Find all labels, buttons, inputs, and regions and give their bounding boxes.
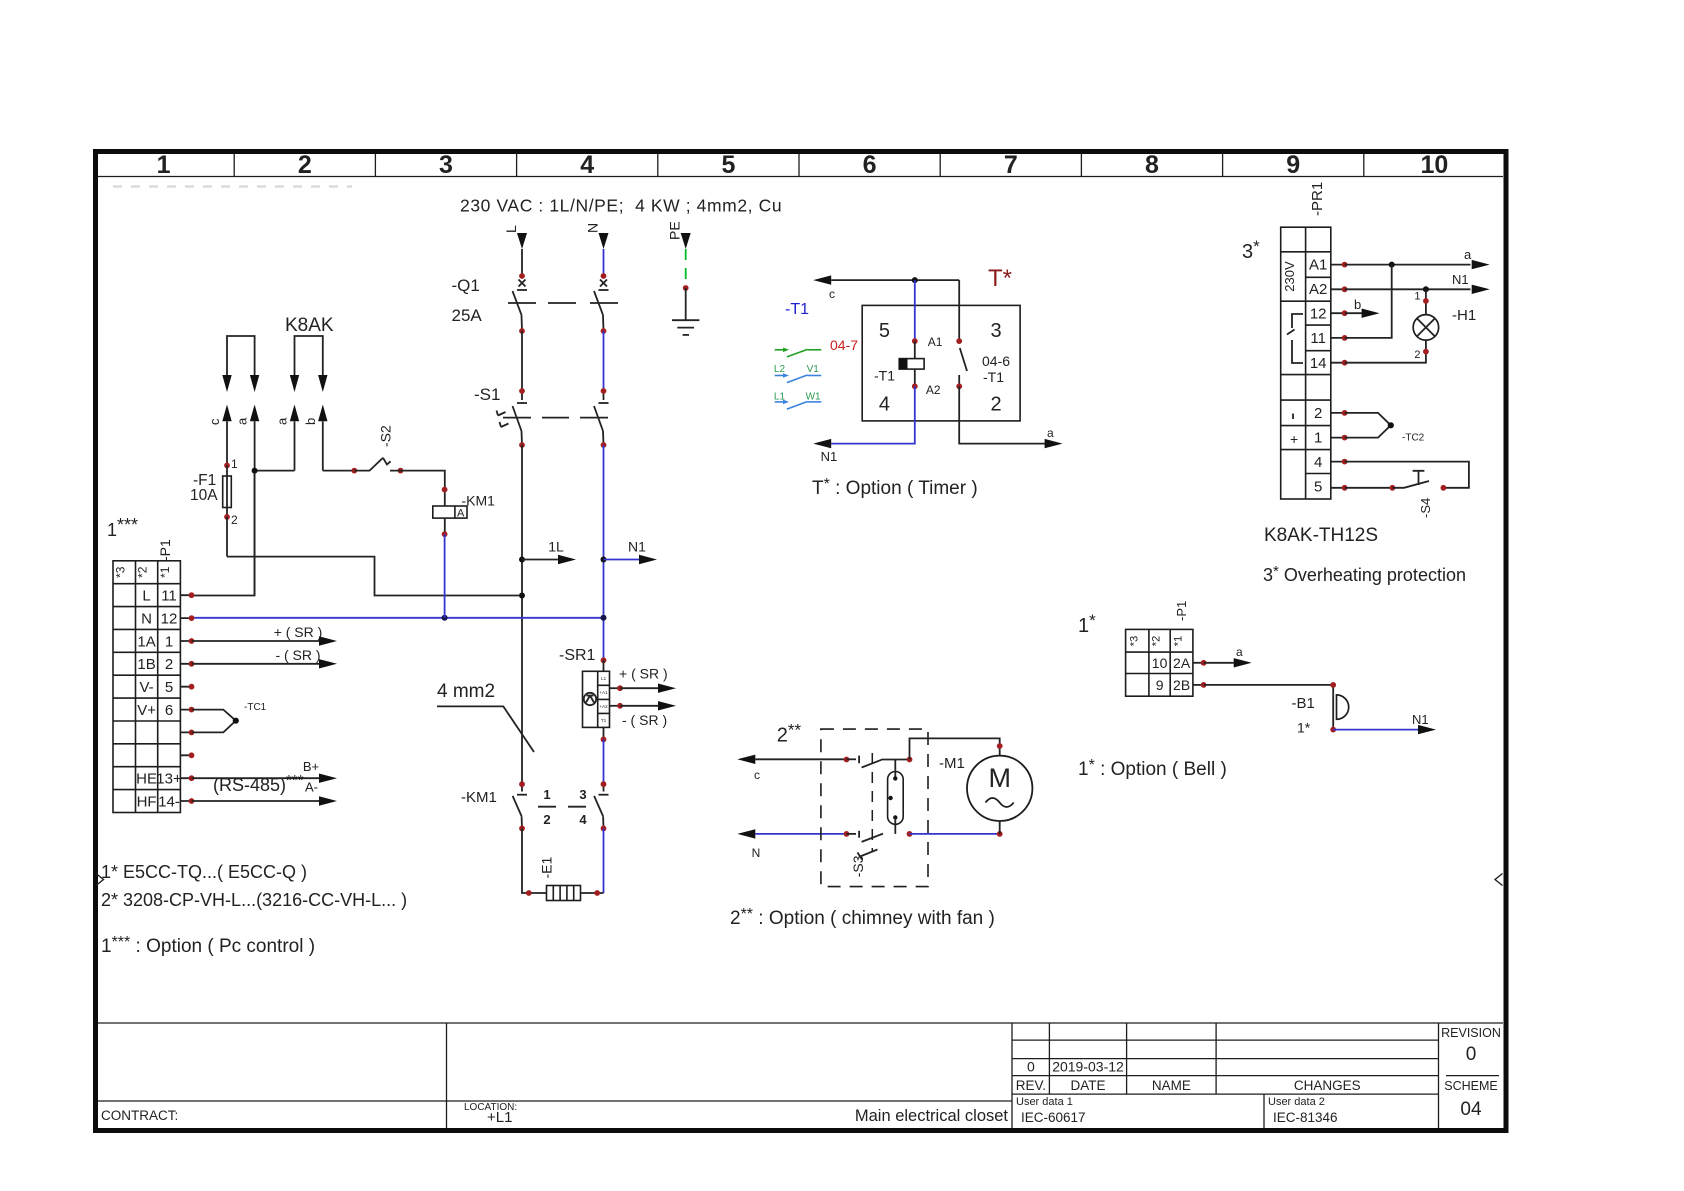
BELL bbox=[1078, 601, 1436, 780]
terminal numbers column bbox=[156, 588, 182, 811]
svg-text:-PR1: -PR1 bbox=[1309, 182, 1326, 216]
heater E1 body bbox=[547, 886, 581, 901]
capsule wire bottom bbox=[894, 818, 896, 834]
svg-text:SCHEME: SCHEME bbox=[1444, 1079, 1497, 1093]
wire 11 to A1 bbox=[1345, 265, 1392, 338]
wire timer A2 to N1 blue bbox=[831, 386, 915, 443]
svg-text:N1: N1 bbox=[1452, 272, 1469, 287]
bell stub 2A bbox=[1193, 662, 1204, 664]
terminal KM1 1 bbox=[519, 781, 525, 787]
junction timer top bbox=[912, 277, 918, 283]
net arrow a pr1 bbox=[1345, 264, 1471, 266]
switch S3 pole bottom bbox=[844, 831, 850, 837]
right center marker bbox=[1495, 874, 1503, 886]
svg-text:2: 2 bbox=[231, 513, 238, 527]
svg-text:NAME: NAME bbox=[1152, 1078, 1191, 1093]
svg-text:-H1: -H1 bbox=[1452, 307, 1476, 324]
svg-text:N: N bbox=[585, 223, 601, 233]
connector plug bracket 2 bbox=[295, 336, 323, 375]
svg-text:2: 2 bbox=[990, 394, 1001, 416]
terminal dot 12 bbox=[1342, 310, 1348, 316]
junction PE bbox=[683, 285, 689, 291]
svg-text:+A1: +A1 bbox=[600, 690, 609, 695]
svg-text:1: 1 bbox=[1314, 430, 1322, 447]
svg-text:1* E5CC-TQ...( E5CC-Q ): 1* E5CC-TQ...( E5CC-Q ) bbox=[101, 862, 307, 882]
svg-text:11: 11 bbox=[161, 588, 177, 605]
svg-text:N1: N1 bbox=[628, 539, 646, 555]
contactor KM1 pole 3-4 bbox=[594, 784, 608, 828]
terminal timer A2 bbox=[912, 383, 918, 389]
node L feed arrow bbox=[517, 233, 527, 249]
svg-text:N1: N1 bbox=[821, 449, 838, 464]
rev header row bbox=[1016, 1078, 1361, 1093]
svg-text:5: 5 bbox=[1314, 479, 1322, 496]
svg-text:1: 1 bbox=[1414, 291, 1420, 303]
lamp H1 body bbox=[1413, 315, 1439, 341]
junction a link bbox=[252, 468, 258, 474]
lamp H1 pin1 dot bbox=[1423, 298, 1429, 304]
wire PE green bbox=[685, 249, 687, 288]
fuse F1 body bbox=[223, 476, 232, 508]
net arrow c fan bbox=[737, 755, 755, 764]
net arrow b pr1 bbox=[1345, 312, 1363, 314]
svg-text:12: 12 bbox=[161, 611, 178, 628]
timer contact blade bbox=[960, 348, 967, 371]
junction motor top bbox=[997, 743, 1003, 749]
junction A2 branch bbox=[1423, 286, 1429, 292]
svg-text:W1: W1 bbox=[806, 392, 821, 403]
thermocouple TC2 wires bbox=[1345, 413, 1391, 438]
breaker Q1 pole L bbox=[513, 280, 528, 332]
svg-text:c: c bbox=[829, 287, 835, 301]
terminal dot 13 bbox=[189, 775, 195, 781]
svg-text:User data 2: User data 2 bbox=[1268, 1096, 1325, 1108]
junction A1 branch bbox=[1389, 262, 1395, 268]
svg-text:2: 2 bbox=[1314, 405, 1322, 422]
svg-text:-B1: -B1 bbox=[1292, 695, 1315, 712]
terminal SR1 L1 top bbox=[601, 657, 607, 663]
socket pin arrow up a2 bbox=[290, 405, 299, 422]
svg-text:5: 5 bbox=[721, 151, 735, 179]
svg-text:9: 9 bbox=[1156, 677, 1164, 693]
svg-text:-Q1: -Q1 bbox=[452, 276, 480, 295]
motor sine mark bbox=[986, 798, 1014, 807]
svg-text:DATE: DATE bbox=[1070, 1078, 1105, 1093]
node PE feed arrow bbox=[681, 233, 691, 249]
switch S1 pole L bbox=[513, 391, 528, 445]
net arrow -SR bbox=[192, 663, 320, 665]
terminal dot 5 bbox=[1342, 485, 1348, 491]
svg-text:-TC2: -TC2 bbox=[1402, 433, 1425, 444]
svg-text:b: b bbox=[1354, 297, 1361, 312]
SR1KM1 bbox=[437, 647, 676, 901]
ground symbol bbox=[672, 288, 699, 335]
svg-text:1: 1 bbox=[157, 151, 171, 179]
bell B1 symbol bbox=[1337, 695, 1349, 719]
svg-text:L2: L2 bbox=[774, 364, 786, 375]
wire L arrow to Q1 bbox=[521, 249, 523, 276]
net arrow a bell bbox=[1204, 662, 1234, 664]
terminal dot 2A bbox=[1201, 660, 1207, 666]
terminal dot 4 bbox=[1342, 459, 1348, 465]
svg-text:2** : Option ( chimney with fa: 2** : Option ( chimney with fan ) bbox=[730, 906, 995, 929]
relay terminal stubs bbox=[1331, 265, 1345, 488]
svg-text:4: 4 bbox=[879, 394, 890, 416]
svg-text:1L: 1L bbox=[548, 539, 564, 555]
header numbers bbox=[157, 151, 1449, 179]
svg-text:+: + bbox=[1290, 431, 1298, 447]
faint reference dashes bbox=[113, 185, 352, 187]
terminal timer 3 bbox=[956, 338, 962, 344]
svg-text:+L1: +L1 bbox=[487, 1109, 512, 1126]
svg-text:4: 4 bbox=[579, 812, 587, 827]
svg-text:CHANGES: CHANGES bbox=[1294, 1078, 1361, 1093]
svg-text:04-6: 04-6 bbox=[982, 353, 1010, 369]
svg-text:5: 5 bbox=[879, 320, 890, 342]
svg-text:-T1: -T1 bbox=[874, 368, 895, 384]
svg-text:N: N bbox=[752, 846, 761, 860]
net arrow N1 pr1 bbox=[1345, 288, 1471, 290]
junction N1 bbox=[601, 557, 607, 563]
wire timer contact top bbox=[958, 280, 960, 341]
left center marker bbox=[96, 874, 104, 886]
svg-text:0: 0 bbox=[1027, 1059, 1035, 1075]
terminal KM1 3 bbox=[601, 781, 607, 787]
header column dividers bbox=[234, 154, 1364, 177]
svg-text:-S4: -S4 bbox=[1418, 498, 1433, 518]
svg-text:8: 8 bbox=[1145, 151, 1159, 179]
wire KM1 A2 to N bbox=[444, 534, 446, 618]
terminal SR1 +A2 bbox=[617, 703, 623, 709]
cross ref switch blue 2 bbox=[775, 402, 822, 410]
svg-text:1: 1 bbox=[543, 787, 550, 802]
wire KM1 2 to heater bbox=[522, 828, 547, 893]
svg-text:CONTRACT:: CONTRACT: bbox=[101, 1108, 178, 1123]
junction S1 L bottom bbox=[519, 442, 525, 448]
wire b to S2 bbox=[323, 470, 355, 472]
contactor KM1 pole 1-2 bbox=[513, 784, 527, 828]
PR1 bbox=[1242, 182, 1490, 585]
fuse F1 terminal 1 bbox=[224, 463, 230, 469]
svg-text:*3: *3 bbox=[1128, 636, 1140, 646]
wire KM1 4 to heater bbox=[603, 828, 605, 893]
switch S2 actuator chevron bbox=[383, 458, 391, 465]
wire a stem down to terminal 11 net bbox=[254, 421, 256, 595]
svg-text:HE: HE bbox=[136, 771, 157, 788]
svg-text:2B: 2B bbox=[1173, 677, 1190, 693]
svg-text:M: M bbox=[988, 763, 1011, 793]
wire Q1 to S1 L bbox=[521, 331, 523, 391]
terminal dot 5 bbox=[189, 684, 195, 690]
svg-text:+A2: +A2 bbox=[600, 704, 609, 709]
socket pin arrow up c bbox=[222, 405, 231, 422]
svg-text:10A: 10A bbox=[190, 487, 218, 504]
net arrow N fan bbox=[737, 829, 755, 838]
thermocouple TC1 wires bbox=[192, 710, 236, 733]
wire P1 terminal 11 to K8AK pin a bbox=[192, 471, 255, 596]
wire S3 to motor top bbox=[910, 738, 1000, 759]
MAIN bbox=[192, 273, 658, 784]
svg-text:0: 0 bbox=[1466, 1044, 1477, 1065]
svg-text:7: 7 bbox=[1004, 151, 1018, 179]
svg-text:V1: V1 bbox=[807, 364, 820, 375]
terminal KM1 A2 bbox=[442, 531, 448, 537]
svg-text:9: 9 bbox=[1286, 151, 1300, 179]
fuse F1 terminal 2 bbox=[224, 514, 230, 520]
svg-text:HF: HF bbox=[137, 793, 157, 810]
svg-text:-M1: -M1 bbox=[939, 755, 965, 772]
wire SR1 top bbox=[603, 660, 605, 671]
svg-text:a: a bbox=[275, 417, 290, 425]
SR1 output stub +A1 bbox=[610, 687, 621, 689]
svg-text:V-: V- bbox=[140, 679, 154, 696]
motor M1 body bbox=[967, 756, 1032, 821]
svg-text:V+: V+ bbox=[137, 702, 156, 719]
svg-text:-S2: -S2 bbox=[378, 425, 394, 447]
svg-text:A1: A1 bbox=[928, 335, 943, 349]
SR1 pin labels bbox=[600, 676, 609, 723]
svg-text:14: 14 bbox=[1310, 355, 1327, 372]
svg-text:*2: *2 bbox=[1151, 636, 1163, 646]
contract row line bbox=[98, 1100, 1012, 1102]
wire A1 to coil bbox=[914, 341, 916, 359]
switch S1 linkage dashes bbox=[503, 417, 608, 419]
wire timer contact bottom bbox=[958, 375, 960, 386]
capsule wire top bbox=[894, 760, 896, 779]
svg-text:*2: *2 bbox=[136, 566, 150, 578]
svg-text:-P1: -P1 bbox=[1174, 601, 1189, 621]
terminal S3 top right bbox=[907, 757, 913, 763]
wire terminal 5 to S4 bbox=[1345, 487, 1393, 489]
junction c wire on L bus bbox=[519, 593, 525, 599]
svg-text:*1: *1 bbox=[1173, 636, 1185, 646]
wire timer coil feed blue bbox=[914, 280, 916, 341]
terminal dot 6 bbox=[189, 707, 195, 713]
socket pin arrow up a1 bbox=[250, 405, 259, 422]
svg-text:A: A bbox=[457, 508, 465, 520]
terminal dot 1 bbox=[189, 638, 195, 644]
timer coil body bbox=[899, 359, 924, 370]
wire fused c from F1 to L bus bbox=[227, 557, 522, 596]
svg-text:230 VAC : 1L/N/PE; 4 KW ; 4mm: 230 VAC : 1L/N/PE; 4 KW ; 4mm2, Cu bbox=[460, 196, 782, 216]
svg-text:1B: 1B bbox=[137, 656, 155, 673]
net arrow a right bbox=[1045, 439, 1063, 448]
svg-text:A2: A2 bbox=[926, 383, 941, 397]
terminal dot 2B bbox=[1201, 682, 1207, 688]
fuse F1 through wire bbox=[226, 465, 228, 517]
terminal dot row8 bbox=[189, 752, 195, 758]
FEED bbox=[460, 196, 782, 335]
svg-text:1: 1 bbox=[231, 457, 238, 471]
terminal stubs bbox=[180, 595, 191, 801]
net arrow -SR out bbox=[620, 705, 658, 707]
connector plug bracket 1 bbox=[227, 336, 255, 375]
svg-text:N1: N1 bbox=[1412, 712, 1429, 727]
net arrow c left bbox=[813, 275, 831, 284]
cross ref switch blue 1 bbox=[775, 375, 822, 383]
bell stub 2B bbox=[1193, 684, 1204, 686]
net arrow N1 bell bbox=[1333, 729, 1418, 731]
switch S4 left dot bbox=[1390, 485, 1396, 491]
relay PR1 body bbox=[1281, 227, 1331, 499]
svg-text:04: 04 bbox=[1460, 1099, 1482, 1120]
net arrow B+ bbox=[192, 777, 320, 779]
svg-text:-S3: -S3 bbox=[850, 855, 866, 877]
capsule dot mid bbox=[888, 796, 892, 800]
divider contract/location bbox=[446, 1023, 448, 1128]
terminal KM1 4 bbox=[601, 826, 607, 832]
svg-text:-E1: -E1 bbox=[539, 857, 555, 879]
terminal S3 bottom right bbox=[907, 831, 913, 837]
wire N arrow to Q1 bbox=[603, 249, 605, 276]
svg-text:b: b bbox=[303, 418, 318, 425]
socket pin arrow up b bbox=[318, 405, 327, 422]
svg-text:-SR1: -SR1 bbox=[559, 647, 596, 664]
svg-text:5: 5 bbox=[165, 679, 173, 696]
wire SR1 bottom bbox=[603, 727, 605, 739]
svg-text:Main electrical closet: Main electrical closet bbox=[855, 1107, 1009, 1125]
terminal KM1 2 bbox=[519, 826, 525, 832]
SR1 output stub +A2 bbox=[610, 705, 621, 707]
wire S2 to KM1 coil bbox=[390, 471, 445, 506]
switch S3 interlock dashed bbox=[871, 753, 873, 852]
svg-text:14-: 14- bbox=[158, 793, 180, 810]
wire F1 down bbox=[226, 517, 228, 557]
svg-text:a: a bbox=[1236, 645, 1243, 659]
terminal bell bottom bbox=[1330, 727, 1336, 733]
svg-text:L: L bbox=[503, 225, 519, 233]
junction Q1 N top bbox=[601, 273, 607, 279]
thermocouple TC1 junction bbox=[233, 718, 239, 724]
plug pin arrow down 2 bbox=[250, 375, 259, 392]
svg-text:A1: A1 bbox=[1309, 257, 1327, 274]
svg-text:230V: 230V bbox=[1282, 261, 1297, 292]
svg-text:a: a bbox=[1047, 426, 1054, 440]
svg-text:10: 10 bbox=[1152, 655, 1168, 671]
terminal timer 2 bbox=[956, 383, 962, 389]
wire Q1 to S1 N bbox=[603, 331, 605, 391]
capsule dot bottom bbox=[893, 815, 897, 819]
FAN bbox=[730, 721, 1032, 929]
svg-text:2019-03-12: 2019-03-12 bbox=[1052, 1059, 1124, 1075]
bell P1 terminal table bbox=[1126, 629, 1193, 696]
svg-text:B+: B+ bbox=[303, 759, 319, 774]
svg-text:04-7: 04-7 bbox=[830, 337, 858, 353]
svg-text:-S1: -S1 bbox=[474, 385, 500, 404]
svg-text:K8AK: K8AK bbox=[285, 315, 334, 336]
K8AK bbox=[190, 315, 495, 618]
junction 1L bbox=[519, 557, 525, 563]
switch S4 blade bbox=[1392, 481, 1429, 488]
thermal protector capsule bbox=[888, 772, 904, 825]
junction Q1 N bottom bbox=[601, 328, 607, 334]
terminal dot row7 bbox=[189, 730, 195, 736]
TIMER bbox=[774, 265, 1063, 499]
node N feed arrow bbox=[599, 233, 609, 249]
terminal SR1 +A1 bbox=[617, 685, 623, 691]
wire L bus vertical bbox=[521, 445, 523, 784]
wire c stem bbox=[226, 421, 228, 465]
TITLEBLOCK bbox=[98, 1023, 1503, 1128]
header row line bbox=[98, 176, 1503, 178]
terminal timer A1 bbox=[912, 338, 918, 344]
switch S2 blade bbox=[354, 458, 383, 471]
junction S1 L top bbox=[519, 388, 525, 394]
svg-text:2: 2 bbox=[1414, 349, 1420, 361]
terminal dot 2 bbox=[189, 661, 195, 667]
border frame bbox=[96, 152, 1507, 1131]
svg-text:a: a bbox=[1464, 247, 1472, 262]
svg-text:L1: L1 bbox=[601, 676, 607, 681]
wire N bus to KM1 contact bbox=[603, 739, 605, 784]
svg-text:4: 4 bbox=[580, 151, 594, 179]
terminal dot 14 bbox=[189, 798, 195, 804]
junction S1 N bottom bbox=[601, 442, 607, 448]
SR1 optocoupler symbol bbox=[584, 693, 596, 705]
terminal dot 2 bbox=[1342, 410, 1348, 416]
plug pin arrow down 4 bbox=[318, 375, 327, 392]
wire coil to A2 bbox=[914, 369, 916, 386]
terminal names column bbox=[136, 588, 157, 811]
junction heater right bbox=[594, 890, 600, 896]
svg-text:User data 1: User data 1 bbox=[1016, 1096, 1073, 1108]
plug pin arrow down 1 bbox=[222, 375, 231, 392]
svg-text:11: 11 bbox=[1310, 330, 1326, 347]
svg-text:1* : Option ( Bell ): 1* : Option ( Bell ) bbox=[1078, 757, 1227, 780]
svg-text:6: 6 bbox=[165, 702, 173, 719]
switch S3 manual lever bbox=[858, 850, 878, 860]
solid state relay SR1 body bbox=[583, 671, 610, 727]
svg-text:A2: A2 bbox=[1309, 281, 1327, 298]
svg-text:-T1: -T1 bbox=[785, 301, 809, 318]
wire 14 to lamp bbox=[1345, 352, 1426, 363]
terminal dot A2 bbox=[1342, 286, 1348, 292]
svg-text:13+: 13+ bbox=[156, 771, 182, 788]
fan assembly dashed enclosure bbox=[821, 729, 928, 887]
wire b stem bbox=[322, 421, 324, 470]
svg-text:T*: T* bbox=[988, 265, 1012, 292]
terminal dot 11 bbox=[1342, 335, 1348, 341]
switch S2 left terminal bbox=[351, 468, 357, 474]
svg-text:REV.: REV. bbox=[1016, 1078, 1046, 1093]
svg-text:4: 4 bbox=[1314, 454, 1322, 471]
junction N wire to N bus bbox=[601, 615, 607, 621]
svg-text:1: 1 bbox=[165, 633, 173, 650]
svg-text:6: 6 bbox=[863, 151, 877, 179]
svg-text:- ( SR ): - ( SR ) bbox=[275, 647, 320, 663]
contactor coil KM1 body bbox=[433, 506, 467, 518]
plug pin arrow down 3 bbox=[290, 375, 299, 392]
relay PR1 internal contact bbox=[1287, 314, 1303, 363]
net arrow N1 left bbox=[813, 439, 831, 448]
svg-text:2: 2 bbox=[543, 812, 550, 827]
bell wire through bbox=[1332, 695, 1334, 730]
svg-text:10: 10 bbox=[1420, 151, 1448, 179]
svg-text:2* 3208-CP-VH-L...(3216-CC-VH-: 2* 3208-CP-VH-L...(3216-CC-VH-L... ) bbox=[101, 890, 407, 910]
net arrow 1L bbox=[522, 559, 558, 561]
cross ref switch green bbox=[775, 349, 822, 357]
svg-text:c: c bbox=[207, 418, 222, 425]
net arrow N1 bbox=[604, 559, 640, 561]
switch S1 pole N bbox=[594, 391, 609, 445]
P1TABLE bbox=[101, 515, 407, 957]
junction motor bottom bbox=[997, 831, 1003, 837]
wire motor bottom stub bbox=[999, 821, 1001, 834]
svg-text:c: c bbox=[754, 768, 760, 782]
svg-text:1*: 1* bbox=[1297, 720, 1311, 736]
svg-text:IEC-60617: IEC-60617 bbox=[1021, 1110, 1086, 1125]
breaker Q1 pole N bbox=[594, 280, 609, 332]
